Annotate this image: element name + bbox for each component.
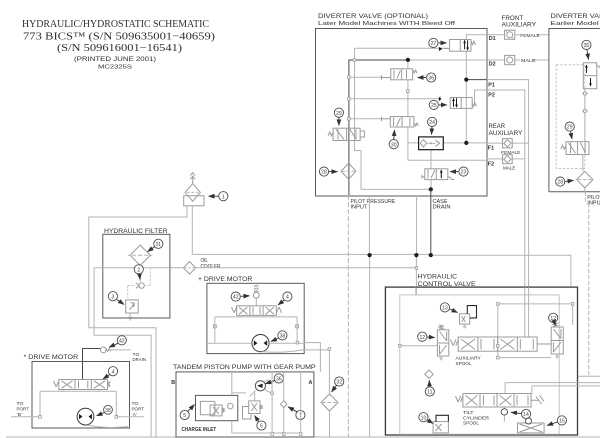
- wire P1 to control valve: [487, 80, 529, 288]
- wire from breather down to case-drain rail: [191, 206, 193, 255]
- wire valve 27 feed: [355, 48, 450, 189]
- svg-text:HYDRAULIC/HYDROSTATIC SCHEMATI: HYDRAULIC/HYDROSTATIC SCHEMATIC: [22, 19, 209, 30]
- relief valve 13: [460, 306, 477, 328]
- svg-text:14: 14: [523, 412, 529, 418]
- check 14: [501, 407, 507, 422]
- diverter valve box (earlier model): [549, 29, 600, 192]
- filter 28: [341, 163, 356, 179]
- balloon 28: [319, 167, 337, 176]
- oil cooler diamond: [183, 262, 195, 275]
- wire pilot pressure dark riser: [349, 60, 408, 195]
- coupler front female: [505, 30, 515, 39]
- svg-text:35: 35: [584, 43, 590, 49]
- svg-text:DRAIN: DRAIN: [433, 204, 451, 210]
- orifice 7: [281, 401, 287, 408]
- svg-text:F2: F2: [488, 161, 494, 167]
- svg-text:AUXILIARY: AUXILIARY: [489, 131, 523, 137]
- svg-text:MALE: MALE: [503, 165, 516, 171]
- svg-text:42: 42: [119, 338, 125, 344]
- valve outlet bracket (+ motor): [215, 315, 297, 343]
- svg-text:13: 13: [442, 306, 448, 312]
- svg-text:’A’: ’A’: [132, 412, 137, 417]
- wire P1 riser: [465, 51, 467, 143]
- wire bypass dashed loop: [128, 268, 151, 298]
- drive control valve (*): [54, 380, 111, 390]
- pump internal wires: [232, 372, 301, 433]
- wire tank rail extension to control valve: [431, 255, 571, 287]
- svg-text:(PRINTED JUNE 2001): (PRINTED JUNE 2001): [74, 56, 156, 63]
- svg-text:38: 38: [105, 408, 111, 414]
- wire to gear pump inlet: [304, 343, 320, 372]
- wire motor case drain curve (+ motor): [262, 350, 329, 394]
- svg-text:TO: TO: [17, 401, 24, 406]
- wire D1 link from valve 27: [466, 35, 487, 40]
- wire case drain drop (dark): [430, 189, 432, 255]
- svg-text:Later Model Machines WITH Blee: Later Model Machines WITH Bleed Off: [318, 21, 456, 27]
- wire valve 25 pilot branch: [349, 96, 440, 99]
- wire F2 rail: [408, 159, 487, 161]
- coupler rear male: [503, 155, 513, 164]
- solenoid valve 36: [382, 69, 417, 80]
- shuttle spring and orifice (+ motor): [253, 285, 259, 305]
- wire port B line: [11, 416, 40, 418]
- gear pump symbol: [250, 380, 272, 397]
- wire D2 to coupler: [487, 59, 549, 61]
- svg-text:OIL: OIL: [201, 258, 209, 264]
- balloon 38 (+ motor): [271, 331, 287, 342]
- svg-text:FEMALE: FEMALE: [520, 33, 540, 39]
- wire earlier-model pilot input drop: [585, 188, 589, 376]
- svg-text:2: 2: [137, 267, 140, 273]
- svg-text:773 BICS™ (S/N 509635001−40659: 773 BICS™ (S/N 509635001−40659): [23, 31, 216, 42]
- balloon 4 (+ motor): [278, 292, 292, 305]
- svg-text:31: 31: [155, 242, 161, 248]
- svg-text:B: B: [171, 380, 175, 386]
- svg-text:MC2325S: MC2325S: [98, 64, 132, 70]
- solenoid valve 12 left: [437, 325, 448, 360]
- svg-text:COOLER: COOLER: [201, 264, 221, 270]
- svg-text:29: 29: [336, 111, 342, 117]
- solenoid valve 25: [439, 97, 477, 109]
- junction node P1: [464, 78, 468, 82]
- wire valve 30 branch: [349, 118, 382, 120]
- svg-text:FRONT: FRONT: [502, 16, 524, 22]
- balloon 29 (earlier): [565, 122, 574, 139]
- balloon 5: [180, 405, 194, 420]
- solenoid valve 27: [439, 40, 476, 52]
- balloon 24: [428, 117, 437, 134]
- svg-text:INPUT: INPUT: [587, 201, 600, 207]
- svg-text:12: 12: [419, 335, 425, 341]
- wire pilot pressure input riser: [347, 195, 349, 437]
- svg-text:29: 29: [567, 125, 573, 131]
- svg-text:28: 28: [321, 170, 327, 176]
- coupler front male: [505, 55, 515, 64]
- wire P1 P2 into spool: [525, 287, 529, 337]
- wire motor port rail (+ motor): [207, 342, 304, 344]
- wire tilt work ports: [505, 383, 600, 394]
- wire F2 to coupler: [487, 158, 525, 160]
- wire D1 to coupler: [487, 34, 549, 36]
- junction node valve36 pilot: [406, 58, 410, 62]
- auxiliary spool valve: [451, 337, 552, 351]
- wire P2 out: [475, 90, 487, 104]
- junction node case drain rail end: [429, 253, 433, 257]
- wire P1 out: [466, 79, 487, 81]
- svg-text:TANDEM PISTON PUMP WITH GEAR P: TANDEM PISTON PUMP WITH GEAR PUMP: [173, 364, 316, 371]
- relief valve 3: [126, 300, 139, 320]
- svg-text:1: 1: [222, 194, 225, 200]
- solenoid valve 12 right: [551, 322, 563, 358]
- balloon 3: [108, 292, 124, 305]
- wire motor case drain curve (*): [88, 425, 129, 427]
- svg-text:TO: TO: [132, 401, 139, 406]
- balloon 35: [582, 40, 591, 59]
- junction node control valve feed: [414, 253, 418, 257]
- wire inlet drop inside box: [415, 287, 417, 295]
- drive control valve (+ motor): [232, 306, 282, 316]
- hydrostatic motor (*): [77, 408, 94, 425]
- load check 11: [425, 370, 433, 378]
- solenoid valve 30: [382, 117, 419, 127]
- svg-text:CHARGE INLET: CHARGE INLET: [182, 427, 217, 433]
- charge pump assembly: [196, 395, 238, 420]
- svg-text:25: 25: [431, 103, 437, 109]
- balloon 10: [419, 413, 433, 424]
- wire D2 feed: [408, 59, 487, 61]
- svg-text:HYDRAULIC FILTER: HYDRAULIC FILTER: [104, 228, 168, 235]
- coupler rear female: [503, 139, 513, 148]
- wire tank riser: [369, 255, 371, 437]
- solenoid valve 35: [583, 63, 600, 89]
- wire from breather to hydraulic filter box: [89, 206, 187, 437]
- svg-text:15: 15: [559, 419, 565, 425]
- anticavitation valve 15: [518, 418, 545, 433]
- wire case drain rail: [361, 188, 431, 190]
- svg-text:Earlier Model Mac: Earlier Model Mac: [551, 21, 600, 27]
- svg-text:* DRIVE MOTOR: * DRIVE MOTOR: [24, 354, 79, 361]
- balloon 31: [148, 239, 163, 252]
- svg-text:P1: P1: [488, 83, 495, 89]
- flow control valve 24 (boxed): [419, 137, 444, 150]
- svg-text:’B’: ’B’: [17, 412, 23, 417]
- wire valve35 to valve29: [582, 89, 588, 142]
- port relief valve 10: [433, 415, 448, 433]
- svg-text:+ DRIVE MOTOR: + DRIVE MOTOR: [198, 276, 253, 283]
- svg-text:4: 4: [112, 369, 115, 375]
- hydrostatic motor (+ motor): [252, 335, 269, 352]
- balloon 2: [134, 265, 143, 280]
- tilt spool valve: [455, 394, 544, 408]
- wire bottom reservoir rail: [6, 436, 600, 438]
- balloon 36: [418, 73, 436, 82]
- svg-text:27: 27: [431, 41, 437, 47]
- wire orifice to drain label: [111, 349, 131, 351]
- wire valve24-valve23 link: [430, 150, 432, 190]
- junction square right (+ motor): [296, 325, 299, 328]
- filter 32 diamond: [321, 394, 338, 411]
- balloon 29: [334, 108, 343, 125]
- svg-text:24: 24: [429, 120, 435, 126]
- wire port A line: [116, 416, 144, 418]
- pilot valve 29: [328, 128, 364, 140]
- junction squares: [39, 59, 586, 436]
- svg-text:11: 11: [427, 390, 432, 396]
- wire through filter box: [103, 267, 170, 269]
- svg-text:D1: D1: [489, 36, 496, 42]
- wire left rail branch: [400, 345, 438, 347]
- drain orifice (*): [100, 347, 110, 353]
- drive motor box (*): [32, 362, 130, 429]
- svg-text:A: A: [309, 380, 313, 386]
- wire diverter drop to control valve: [415, 196, 417, 295]
- wire valve 36 branch: [349, 76, 382, 78]
- svg-text:DIVERTER VALVE: DIVERTER VALVE: [551, 13, 600, 20]
- balloon 6: [255, 416, 267, 431]
- balloon 15: [547, 416, 567, 426]
- balloon 4 (*): [103, 367, 118, 379]
- wire valve29 to filter (earlier): [582, 155, 584, 172]
- balloon 12 right: [549, 313, 558, 325]
- wire F1 to coupler: [487, 142, 529, 144]
- pilot valve 29 (earlier): [561, 142, 589, 155]
- charge relief valve 6: [243, 401, 263, 419]
- svg-text:38: 38: [280, 334, 286, 340]
- svg-text:P2: P2: [488, 93, 495, 99]
- junction node F1: [464, 141, 468, 145]
- balloon 36 (pump): [265, 374, 283, 384]
- balloon 23: [450, 167, 468, 176]
- svg-text:AUXILIARY: AUXILIARY: [502, 22, 537, 28]
- balloon 28 (earlier): [556, 177, 574, 186]
- svg-text:32: 32: [336, 380, 342, 386]
- balloon 1: [209, 192, 228, 201]
- wire pilot rail top: [498, 304, 573, 358]
- wire filter inlet: [94, 268, 151, 437]
- wire oil cooler line: [170, 267, 417, 269]
- balloon 38 (*): [97, 405, 113, 415]
- tandem pump box: [176, 372, 314, 437]
- dashed sub-box: [556, 65, 585, 169]
- svg-text:36: 36: [428, 76, 434, 82]
- svg-text:12: 12: [550, 316, 556, 322]
- balloon 42 (*): [109, 336, 126, 348]
- svg-text:INPUT: INPUT: [351, 204, 368, 210]
- svg-text:F1: F1: [488, 146, 494, 152]
- balloon 27: [429, 38, 447, 47]
- svg-text:DIVERTER VALVE (OPTIONAL): DIVERTER VALVE (OPTIONAL): [318, 13, 428, 20]
- wire case drain rail horizontal: [192, 253, 430, 255]
- control valve inner frame: [400, 295, 559, 434]
- balloon 13: [440, 303, 457, 313]
- svg-text:PORT: PORT: [132, 407, 145, 412]
- svg-text:42: 42: [233, 295, 239, 301]
- svg-text:MALE: MALE: [521, 58, 536, 64]
- solenoid valve 23: [422, 169, 455, 180]
- hydraulic filter box: [103, 234, 170, 318]
- svg-text:D2: D2: [489, 61, 496, 67]
- svg-text:5: 5: [183, 413, 186, 419]
- balloon 11: [425, 380, 434, 396]
- balloon 12 left: [418, 332, 435, 341]
- hydraulic control valve box: [385, 287, 577, 435]
- svg-text:3: 3: [111, 294, 114, 300]
- bypass check valve: [136, 283, 144, 288]
- wire filter internal drop: [139, 265, 141, 282]
- svg-text:REAR: REAR: [489, 124, 506, 130]
- svg-text:PORT: PORT: [17, 407, 30, 412]
- balloon 7: [288, 407, 305, 420]
- balloon 42 (+ motor): [231, 292, 249, 301]
- svg-text:(S/N 509616001−16541): (S/N 509616001−16541): [57, 43, 183, 54]
- drive motor box (+): [207, 283, 304, 353]
- svg-text:HYDRAULIC: HYDRAULIC: [418, 274, 458, 281]
- wire valve36-valve30 rail: [407, 60, 409, 160]
- svg-text:SPOOL: SPOOL: [463, 421, 479, 426]
- wire diverter drop to tank rail: [368, 196, 370, 255]
- svg-text:SPOOL: SPOOL: [456, 361, 472, 366]
- wire filter 32 to reservoir rail: [329, 411, 331, 437]
- svg-text:10: 10: [421, 415, 427, 421]
- svg-text:36: 36: [276, 377, 282, 383]
- wire F1 rail: [408, 142, 487, 144]
- svg-text:DRAIN: DRAIN: [133, 357, 147, 362]
- wire valve pilot to drain (*): [83, 349, 101, 380]
- junction node tank rail: [368, 253, 372, 257]
- balloon 25: [429, 100, 447, 109]
- svg-text:23: 23: [461, 170, 467, 176]
- reservoir breather filter assembly (item 1): [184, 173, 204, 206]
- filter 28 (earlier): [577, 171, 593, 188]
- svg-text:30: 30: [391, 142, 397, 148]
- junction square left (+ motor): [213, 325, 216, 328]
- balloon 32: [332, 377, 344, 392]
- valve outlet bracket (*): [40, 390, 116, 417]
- wire P2 to control valve: [487, 90, 525, 287]
- diverter valve box (later model): [316, 29, 488, 197]
- svg-text:4: 4: [286, 295, 289, 301]
- junction node case drain: [429, 187, 433, 191]
- svg-text:6: 6: [260, 424, 263, 430]
- balloon 14: [511, 409, 531, 418]
- svg-text:28: 28: [557, 180, 563, 186]
- filter element 2 diamond: [128, 245, 152, 265]
- balloon 30: [389, 130, 398, 149]
